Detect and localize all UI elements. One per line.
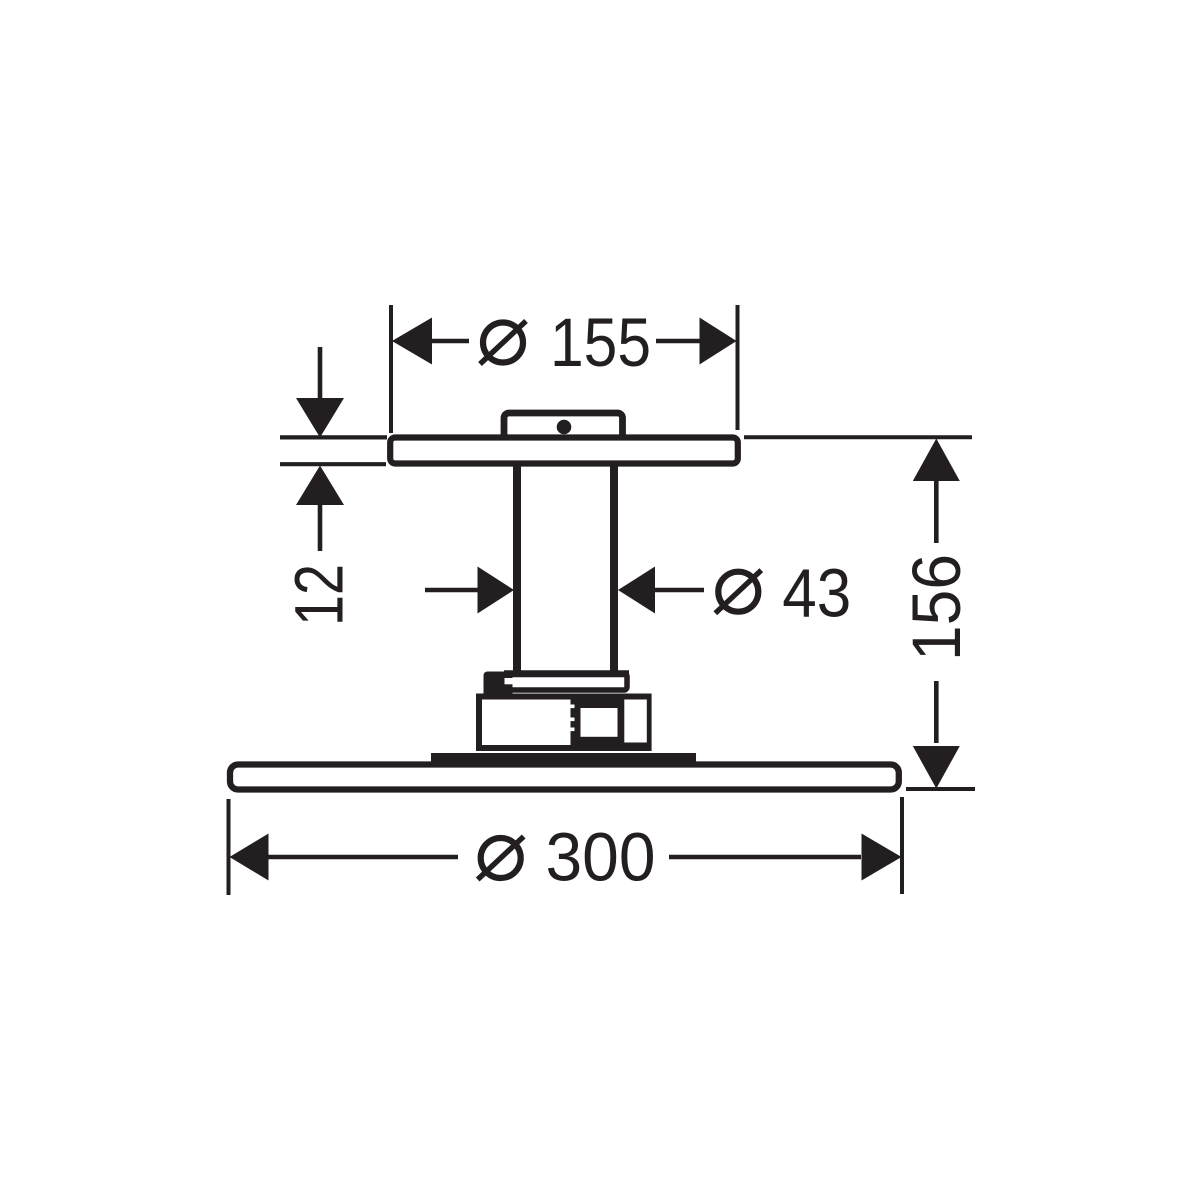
dim 12 upper arrow <box>296 347 344 438</box>
svg-text:43: 43 <box>782 555 851 632</box>
dim Ø155 line right segment <box>656 339 700 344</box>
shower head plate Ø300 <box>230 765 899 790</box>
flange left clip tab <box>484 672 515 698</box>
dim Ø43 diameter symbol <box>715 570 761 613</box>
dim 12 lower arrow <box>296 466 344 552</box>
dim 12 bottom extension line <box>280 462 386 466</box>
dim Ø43 right leader line <box>655 588 704 593</box>
svg-text:300: 300 <box>546 819 656 896</box>
dim Ø155 right arrow <box>700 318 737 365</box>
dim 156 bottom extension line <box>906 787 975 791</box>
dim 156 top extension line <box>744 435 972 439</box>
dim Ø43 right arrow <box>618 567 655 614</box>
dim Ø43 left arrow <box>478 567 515 614</box>
pipe left wall <box>513 464 521 673</box>
dim Ø300 left arrow <box>230 834 269 881</box>
svg-text:12: 12 <box>281 564 358 626</box>
dim Ø155 right extension line <box>736 305 740 430</box>
dim Ø300 right extension line <box>900 797 904 894</box>
connector screw dot <box>557 420 572 435</box>
top escutcheon plate Ø155 <box>390 438 738 464</box>
svg-text:156: 156 <box>898 554 975 661</box>
dim Ø300 right arrow <box>862 834 902 881</box>
dim Ø43 left leader line <box>425 588 478 593</box>
dim Ø155 diameter symbol <box>480 321 526 364</box>
dim Ø300 line right segment <box>669 855 861 860</box>
ceiling connector box <box>504 413 623 439</box>
dim 156 top arrow <box>913 439 960 544</box>
dim 156 bottom arrow <box>913 681 960 789</box>
dim Ø155 left arrow <box>392 318 432 365</box>
dim 12 top extension line <box>280 435 387 439</box>
pipe flange <box>504 674 629 691</box>
mounting bar on shower plate <box>431 753 696 762</box>
valve gear housing <box>567 694 652 751</box>
dim Ø300 left extension line <box>227 799 231 895</box>
dim Ø300 diameter symbol <box>478 837 524 880</box>
svg-text:155: 155 <box>550 304 651 381</box>
dim Ø155 line left segment <box>430 339 469 344</box>
dim Ø300 line left segment <box>268 855 458 860</box>
pipe right wall <box>610 464 618 673</box>
valve base block <box>479 697 649 749</box>
dim Ø155 left extension line <box>389 305 393 433</box>
